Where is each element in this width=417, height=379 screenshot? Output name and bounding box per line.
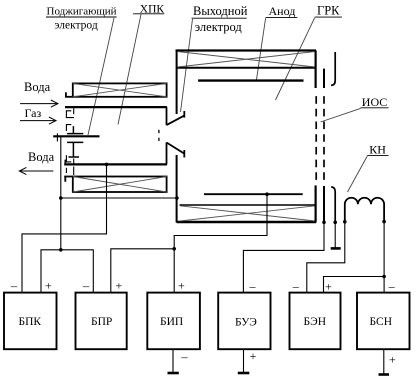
accel grid dashed [323,96,325,180]
underline for ХПК [133,13,164,15]
hatch X chamber lower coil [180,206,315,221]
cathode tube lower wall [64,163,167,165]
svg-text:БУЭ: БУЭ [235,317,257,329]
svg-text:ГРК: ГРК [317,4,340,18]
wire BIP minus bottom [172,350,174,373]
svg-text:Газ: Газ [25,106,42,120]
igniting electrode left tick [56,133,58,141]
node flange to chamber wall [175,196,179,200]
block BPR [76,293,127,350]
node accel grid terminal [322,221,326,225]
node coil left terminal [343,220,347,224]
terminal plus BSN bottom [389,353,396,367]
gas fitting upper brackets [66,108,74,131]
cathode tip support lower T [67,142,83,157]
svg-text:+: + [45,279,52,293]
svg-text:КН: КН [369,142,386,156]
svg-text:Вода: Вода [28,150,55,164]
ground bar BIP [168,372,179,375]
block BPK [4,293,57,350]
wire BEN plus to coil right [324,277,385,293]
label КН [369,142,386,156]
svg-text:–: – [292,279,300,293]
ground bar BSN [379,373,390,376]
node cathode body tap [105,163,109,167]
node BPR plus joins anode wire [172,247,176,251]
leader to output electrode [181,19,193,112]
leader to grid system [321,108,361,122]
label Газ [25,106,42,120]
label ГРК [317,4,340,18]
accel grid solid top [323,69,325,88]
anode upper line [198,79,303,81]
wire cathode body to BPK minus [22,164,107,292]
neutralizer coil KN [345,198,384,222]
terminal minus BSN [388,279,396,293]
node igniting wire on bus [59,248,63,252]
terminal plus BUE bottom [250,349,257,363]
ground bar BUE [238,372,250,375]
arrow gas in [20,117,56,124]
cathode exit lower piece [167,143,185,165]
node outer electrode terminal [333,221,337,225]
block BSN [357,293,410,350]
terminal minus BPR [82,279,90,293]
label Анод [269,4,296,18]
discharge chamber bottom wall [177,221,316,223]
svg-text:–: – [249,279,257,293]
terminal plus BPR [116,279,123,293]
node BEN plus on BSN wire [382,275,386,279]
hatch X upper cathode coil [73,83,167,96]
svg-text:ИОС: ИОС [362,95,387,109]
hatch X lower cathode coil [73,177,167,193]
cathode orifice plates [158,130,160,141]
svg-text:–: – [82,279,90,293]
svg-text:Анод: Анод [269,4,296,18]
underline for ГРК [315,16,342,18]
label Выходной электрод [193,4,248,34]
terminal plus BPK [45,279,52,293]
lower wall left tick [64,160,66,165]
underline for КН [367,154,388,156]
svg-text:БПР: БПР [91,316,112,328]
svg-text:электрод: электрод [195,20,243,34]
cathode magnet coil upper (hatched box) [65,83,167,96]
label Поджигающий электрод [47,6,117,32]
wire BUE plus bottom [243,350,245,373]
wire coil right to BSN minus [383,222,385,293]
svg-text:–: – [181,350,189,364]
screen grid solid bottom (right wall) [315,185,317,222]
terminal minus BUE [249,279,257,293]
svg-text:БСН: БСН [370,316,393,328]
terminal minus BPK [10,279,18,293]
svg-text:Поджигающий: Поджигающий [47,6,117,18]
gas fitting lower brackets [66,155,73,175]
wire anode to BIP plus [174,194,267,292]
node igniting wire to body line [59,196,63,200]
cathode magnet coil lower (hatched box) [64,177,166,193]
node anode tap [265,192,269,196]
wire coil left to BEN minus [307,222,345,293]
svg-text:Выходной: Выходной [193,4,248,18]
wire BPK plus / BPR minus bus [41,250,93,293]
discharge chamber left wall [176,51,178,223]
anode lower line [204,193,303,195]
leader to discharge chamber [276,18,315,100]
svg-text:+: + [250,349,257,363]
accel grid solid bottom [323,186,325,222]
wire igniting electrode down [60,136,62,250]
svg-text:+: + [325,280,332,294]
wire accel grid to BUE minus [243,222,324,292]
outer electrode bottom hook [331,187,335,222]
svg-text:–: – [10,279,18,293]
wire outer electrode stub [334,222,336,247]
wire body flange line [61,197,177,199]
outer electrode top hook [331,52,335,85]
leader to igniting electrode [88,18,114,135]
cathode exit upper piece [167,107,185,125]
label ХПК [140,4,165,16]
svg-text:+: + [116,279,123,293]
arrow water in [20,100,58,107]
discharge chamber top wall [176,49,317,51]
underline for Поджигающий [46,16,117,18]
svg-text:–: – [388,279,396,293]
hatch X chamber upper coil [178,52,316,68]
svg-text:+: + [389,353,396,367]
leader to anode [257,18,266,79]
svg-text:+: + [178,279,185,293]
underline for Анод [266,17,298,19]
wire BPR plus bus [111,249,174,293]
igniting electrode bar [53,135,99,137]
svg-text:БПК: БПК [19,316,42,328]
block BUE [218,293,270,350]
underline for Выходной [192,17,247,19]
svg-text:БИП: БИП [160,316,183,328]
label Вода (inlet) [24,80,51,94]
terminal plus BIP [178,279,185,293]
svg-text:БЭН: БЭН [304,316,327,328]
arrow water out [19,167,53,174]
svg-text:Вода: Вода [24,80,51,94]
screen grid solid top (right wall) [315,51,317,89]
chamber magnet coil lower (hatched box) [180,204,316,206]
block BIP [147,293,200,350]
terminal minus BEN [292,279,300,293]
chamber magnet coil upper (hatched box) [177,67,316,69]
svg-text:электрод: электрод [55,20,98,32]
terminal minus BIP bottom [181,350,189,364]
outer electrode end bar [331,247,341,250]
label Вода (outlet) [28,150,55,164]
screen grid dashed [315,96,317,180]
block BEN [290,293,341,350]
leader to cathode chamber [118,14,141,124]
label ИОС [362,95,387,109]
node coil right terminal [382,220,386,224]
leader to neutralizer coil [348,156,368,192]
cathode tube upper wall [65,106,167,108]
wire BSN plus bottom [383,350,385,374]
underline for ИОС [361,107,389,109]
cathode tip support upper T [67,126,83,133]
terminal plus BEN [325,280,332,294]
